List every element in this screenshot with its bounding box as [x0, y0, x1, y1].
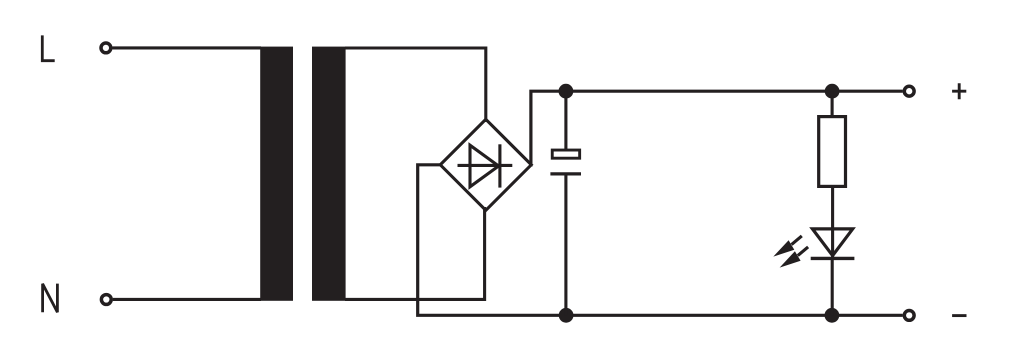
LED light arrow 2 head	[780, 251, 801, 267]
capacitor C1 positive plate	[552, 150, 579, 158]
junction node resistor top	[825, 84, 840, 99]
label -	[952, 314, 966, 317]
bridge rectifier B1 inner diode line	[458, 164, 513, 167]
LED light arrow 1 head	[773, 240, 794, 256]
LED D1 triangle	[812, 229, 852, 256]
capacitor C1 negative plate	[550, 172, 581, 175]
terminal -	[904, 311, 914, 321]
terminal N	[101, 295, 111, 305]
label +	[952, 83, 966, 99]
terminal L	[101, 43, 111, 53]
wire L to transformer primary	[112, 46, 261, 49]
wire resistor to LED	[831, 186, 834, 258]
junction node led bottom	[825, 308, 840, 323]
wire secondary top to bridge AC1	[345, 48, 486, 122]
wire bridge DC+ to top rail	[531, 91, 903, 166]
LED light arrow 1 shaft	[792, 236, 802, 245]
resistor R1	[819, 117, 846, 187]
bridge rectifier B1 inner diode triangle	[470, 145, 499, 187]
LED D1 cathode bar	[811, 257, 855, 260]
wire LED to bottom rail	[831, 258, 834, 315]
wire N to transformer primary	[113, 298, 261, 301]
label L	[42, 35, 54, 60]
LED light arrow 2 shaft	[798, 247, 808, 256]
wire capacitor to bottom rail	[564, 174, 567, 315]
transformer T1 primary winding bar	[260, 47, 293, 301]
junction node cap top	[559, 84, 574, 99]
bridge rectifier B1 diamond	[440, 119, 531, 210]
wire bottom rail DC-	[418, 165, 903, 315]
bridge rectifier B1 inner diode cathode bar	[498, 144, 501, 187]
label N	[43, 284, 58, 313]
wire secondary bottom to bridge AC2	[345, 207, 485, 299]
wire top rail to capacitor	[564, 91, 567, 149]
transformer T1 secondary winding bar	[312, 47, 346, 301]
terminal +	[904, 86, 914, 96]
wire top rail to resistor	[831, 91, 834, 117]
junction node cap bottom	[559, 308, 574, 323]
